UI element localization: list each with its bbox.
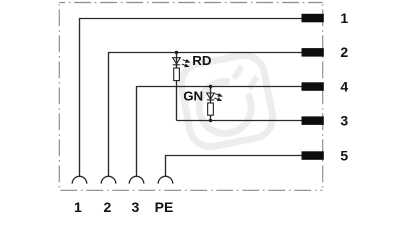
svg-text:PE: PE: [155, 199, 174, 215]
svg-text:3: 3: [132, 199, 140, 215]
svg-text:GN: GN: [183, 89, 203, 104]
svg-text:1: 1: [74, 199, 82, 215]
svg-text:3: 3: [340, 113, 348, 129]
svg-text:2: 2: [104, 199, 112, 215]
svg-text:RD: RD: [192, 53, 212, 68]
svg-text:4: 4: [340, 78, 348, 94]
svg-text:5: 5: [340, 147, 348, 163]
svg-text:1: 1: [340, 10, 348, 26]
svg-text:2: 2: [340, 44, 348, 60]
